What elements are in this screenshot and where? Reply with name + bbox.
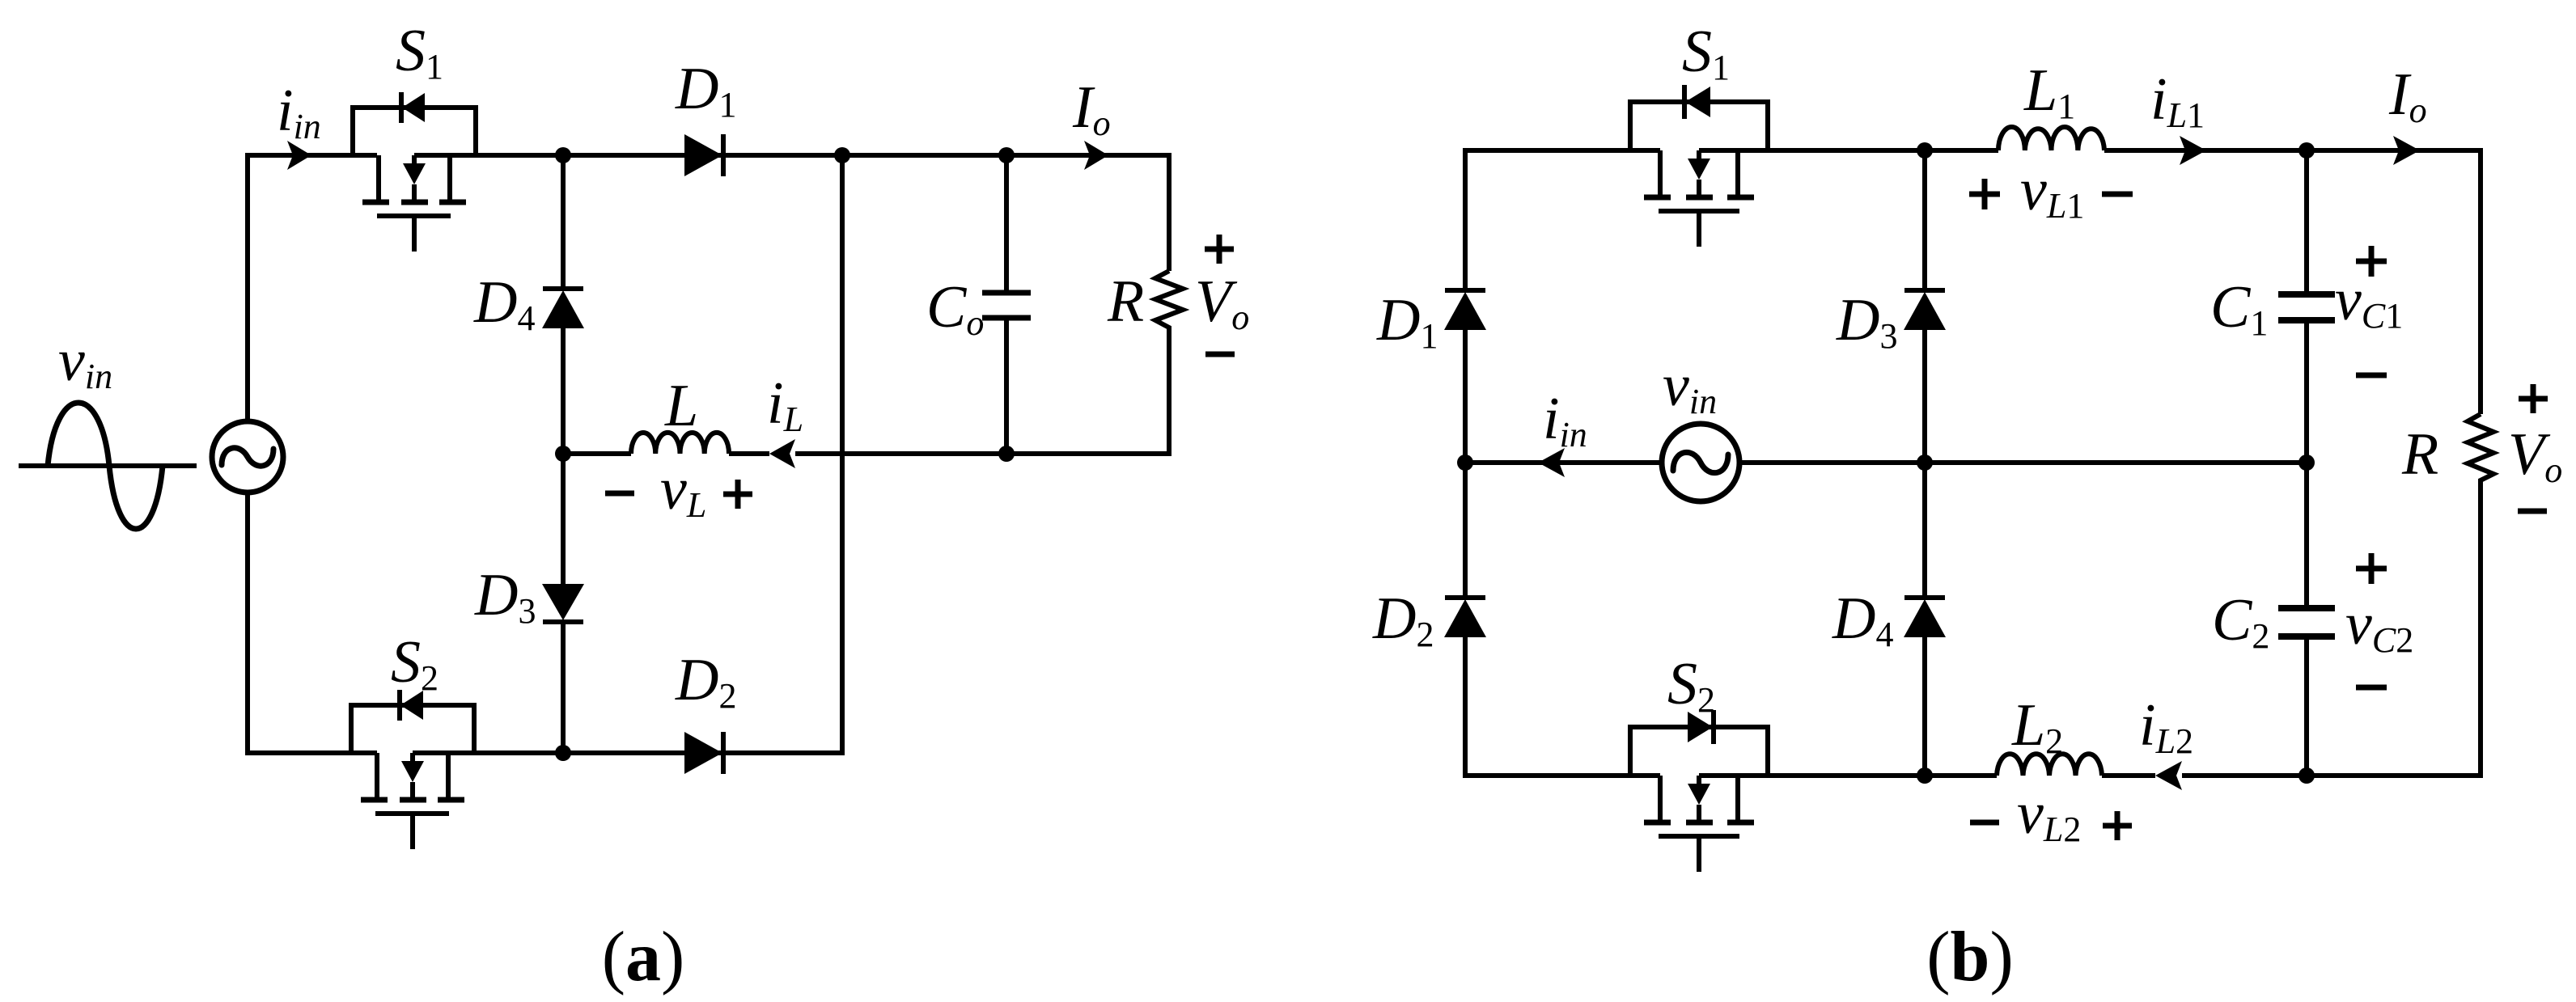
diode D3: triangle pointing down — [542, 584, 584, 620]
transistor S1: body diode triangle — [402, 93, 425, 122]
arrow iL1 (pointing right) — [2180, 136, 2206, 165]
transistor S2: body diode bar (cathode) — [397, 690, 402, 721]
diode D2 (on bottom rail, pointing right): triangle — [684, 732, 722, 774]
sine glyph inside source V1 — [222, 448, 273, 466]
transistor S1 (b): source contact bar — [1727, 195, 1754, 201]
source V1 vin (AC source circle, circuit a) — [212, 421, 283, 493]
diode D3: cathode bar — [543, 619, 583, 624]
transistor S2 (b): left leg — [1658, 776, 1663, 820]
svg-text:R: R — [2401, 421, 2438, 488]
diode D3 (mid vertical, cathode up): cathode bar — [1904, 288, 1945, 293]
diode D4 (vertical, cathode up): top lead — [561, 155, 566, 289]
transistor S2 (b): gate stub — [1697, 836, 1701, 872]
transistor S1: middle contact bar — [401, 200, 428, 205]
wire: top rail of (b) from S1 to L1 — [1699, 148, 1998, 153]
transistor S1 (b): body diode bar (cathode) — [1682, 85, 1687, 119]
wire: top rail of (a) from S1 to right corner, down to R top — [414, 155, 1169, 271]
wire: R bottom to load-return wire going left — [795, 333, 1169, 454]
transistor S2 (b): drain contact bar — [1644, 820, 1671, 826]
transistor S1 (b): middle contact bar — [1686, 195, 1713, 201]
wire: left vertical between D1 and D2 — [1463, 330, 1468, 598]
vin sine-wave decoration curve — [48, 403, 163, 529]
diode D1: triangle pointing up — [1444, 292, 1486, 330]
node: junction dot at (2851,572) — [2298, 454, 2315, 471]
wire: top-left corner of (b) + left vertical down to D1 — [1465, 150, 1660, 290]
transistor S1: source contact bar — [439, 200, 466, 205]
capacitor Co: bottom lead — [1004, 318, 1009, 454]
capacitor C2: bottom lead — [2304, 636, 2309, 776]
wire: left vertical upper + top-left corner of (a) — [248, 155, 377, 421]
node: junction dot at mid vertical top (1041,192) — [834, 147, 850, 163]
wire: top rail of (b) from L1 to right corner, down to R top — [2104, 150, 2481, 414]
transistor S2: source contact bar — [438, 797, 464, 803]
node: junction dot at C2 bottom (2851,959) — [2298, 767, 2315, 784]
diode D2: triangle pointing up — [1444, 599, 1486, 637]
transistor S2 (b): middle contact bar — [1686, 820, 1713, 826]
node: junction dot at D3 top (2379,186) — [1917, 142, 1933, 159]
svg-text:(a): (a) — [602, 918, 685, 996]
wire: mid vertical (x=1041) and bottom rail right part of (a) — [413, 155, 842, 753]
wire: middle rail left segment with arrow iin — [1465, 460, 1662, 465]
capacitor Co: top plate — [982, 290, 1031, 296]
transistor S2: gate stub — [410, 814, 415, 849]
transistor S1: body diode bar (cathode) — [399, 92, 404, 123]
transistor S2: middle body arrow stem + triangle — [410, 753, 415, 763]
transistor S1: drain contact bar — [362, 200, 389, 205]
capacitor C1: bottom lead down through mid node to C2 top plate — [2304, 320, 2309, 608]
diode D3 (vertical, cathode down): top lead — [561, 454, 566, 584]
minus sign below vC1 — [2356, 373, 2387, 378]
capacitor C1: top lead — [2304, 150, 2309, 294]
capacitor C2: bottom plate — [2278, 633, 2335, 640]
transistor S2 (b): gate bar — [1659, 834, 1739, 839]
minus sign below Vo (circuit a) — [1205, 352, 1235, 357]
transistor S1: gate stub — [412, 216, 417, 252]
wire: mid vertical between D3 and D4 — [1922, 330, 1927, 598]
transistor S1: gate bar — [377, 214, 451, 218]
node: junction dot at D4 top (696,192) — [555, 147, 571, 163]
capacitor Co: top lead — [1004, 155, 1009, 293]
svg-text:L: L — [664, 373, 698, 439]
capacitor Co: bottom plate — [982, 315, 1031, 321]
diode D2 (left vertical, cathode up): cathode bar — [1445, 595, 1485, 600]
source V1 vin (AC source circle, circuit b) — [1662, 424, 1739, 501]
wire: inductor L left lead to node (696,561) — [563, 451, 631, 456]
wire: R bottom down to bottom-right corner of (b) — [2182, 483, 2481, 776]
transistor S1 (b): middle body arrow stem + triangle — [1697, 150, 1701, 160]
transistor S1: right (source) leg — [447, 155, 452, 200]
transistor S2 (MOSFET with body diode, circuit a): body-diode loop — [351, 705, 474, 753]
wire: bottom rail of (b) from S2 to L2 — [1699, 773, 1997, 778]
wire: middle rail right segment — [1739, 460, 2307, 465]
diode D4 (mid vertical, cathode up): cathode bar — [1904, 595, 1945, 600]
transistor S2 (MOSFET with body diode, circuit b): body-diode loop — [1630, 727, 1768, 776]
wire: mid vertical below D4 — [1922, 637, 1927, 776]
transistor S2: right (source) leg — [446, 753, 451, 797]
diode D4: cathode bar — [543, 286, 583, 291]
inductor L2 (circuit b): 4 humps — [1997, 754, 2102, 776]
transistor S1 (b): right leg — [1735, 150, 1740, 195]
plus sign above Vo (circuit a) — [1205, 235, 1234, 264]
transistor S2: left (drain) leg — [375, 753, 379, 797]
node: junction dot at Co bottom (1244,561) — [998, 446, 1015, 462]
transistor S1 (b): drain contact bar — [1644, 195, 1671, 201]
capacitor C2: top plate — [2278, 605, 2335, 611]
transistor S2: gate bar — [375, 811, 449, 816]
wire: segment between arrow iL and inductor L — [729, 451, 769, 456]
arrow iL (inductor current, circuit a, pointing left) — [769, 439, 795, 468]
minus sign below vC2 — [2356, 685, 2387, 691]
resistor R (load, circuit a): zigzag — [1155, 271, 1183, 333]
transistor S1 (b): gate stub — [1697, 211, 1701, 247]
svg-text:(b): (b) — [1926, 918, 2014, 996]
wire: left vertical below D2 + bottom-left corner of (b) — [1465, 637, 1660, 776]
inductor L (circuit a): 4 humps — [631, 433, 729, 454]
plus sign right of vL (circuit a) — [723, 480, 752, 509]
wire: mid vertical x=2379 top piece (D3) — [1922, 150, 1927, 290]
node: junction dot at (696,931) — [555, 745, 571, 761]
transistor S2: drain contact bar — [361, 797, 388, 803]
plus sign above vC2 — [2356, 553, 2387, 584]
node: junction dot at C1 top (2851,186) — [2298, 142, 2315, 159]
diode D2: cathode bar — [721, 732, 726, 774]
transistor S1 (MOSFET with body diode, circuit a): body-diode loop — [353, 108, 476, 155]
plus sign left of vL1 — [1969, 179, 2000, 209]
node: junction dot at Co top (1244,192) — [998, 147, 1015, 163]
transistor S2 (b): right leg — [1735, 776, 1740, 820]
transistor S1 (MOSFET with body diode, circuit b): body-diode loop — [1630, 102, 1768, 150]
arrow Io (output current, circuit a) — [1084, 141, 1108, 170]
resistor R (load, circuit b): zigzag — [2468, 414, 2493, 483]
capacitor C1: bottom plate — [2278, 317, 2335, 323]
transistor S2 (b): body diode triangle pointing right — [1688, 712, 1713, 742]
plus sign right of vL2 — [2103, 811, 2132, 840]
wire: segment between arrow iL2 and inductor L2 — [2102, 773, 2155, 778]
transistor S2 (b): source contact bar — [1727, 820, 1754, 826]
vin sine-wave decoration axis line — [19, 463, 197, 468]
node: junction dot at (696,561) — [555, 446, 571, 462]
diode D3: triangle pointing up — [1904, 292, 1946, 330]
diode D4: bottom lead — [561, 328, 566, 454]
transistor S2: body diode triangle — [400, 691, 423, 720]
node: junction dot at (1811,572) — [1457, 454, 1473, 471]
transistor S2: middle contact bar — [400, 797, 426, 803]
sine glyph inside source (b) — [1673, 452, 1728, 472]
plus sign above Vo (circuit b) — [2519, 384, 2548, 413]
node: junction dot at D4 bottom (2379,959) — [1917, 767, 1933, 784]
arrow iin (circuit b, pointing left) — [1538, 448, 1565, 477]
minus sign below Vo (circuit b) — [2518, 509, 2547, 514]
minus sign left of vL (circuit a) — [605, 491, 634, 497]
diode D1: cathode bar — [721, 134, 726, 176]
node: junction dot at (2379,572) — [1917, 454, 1933, 471]
transistor S2 (b): middle body arrow stem + triangle — [1697, 776, 1701, 785]
transistor S1: left (drain) leg — [376, 155, 381, 200]
diode D3: bottom lead — [561, 622, 566, 753]
plus sign above vC1 — [2356, 246, 2387, 277]
transistor S1: middle body arrow stem + triangle — [412, 155, 417, 165]
inductor L1 (circuit b): 4 humps — [1998, 127, 2104, 150]
transistor S1 (b): gate bar — [1659, 209, 1739, 214]
arrow Io (circuit b, pointing right) — [2393, 136, 2420, 165]
transistor S2 (b): body diode bar (cathode, right side) — [1711, 710, 1716, 744]
svg-text:R: R — [1107, 268, 1144, 335]
diode D1 (on top rail, pointing right): triangle — [684, 134, 722, 176]
diode D4: triangle pointing up — [542, 290, 584, 328]
wire: left vertical lower + bottom-left corner of (a) — [248, 493, 377, 753]
diode D1 (left vertical, cathode up): cathode bar — [1445, 288, 1485, 293]
diode D4: triangle pointing up — [1904, 599, 1946, 637]
arrow iin (current into node, circuit a) — [287, 141, 311, 170]
transistor S1 (b): left leg — [1658, 150, 1663, 195]
minus sign right of vL1 — [2102, 192, 2133, 197]
arrow iL2 (pointing left) — [2155, 761, 2182, 790]
minus sign left of vL2 — [1970, 820, 1999, 826]
transistor S1 (b): body diode triangle — [1685, 87, 1710, 117]
capacitor C1: top plate — [2278, 291, 2335, 298]
